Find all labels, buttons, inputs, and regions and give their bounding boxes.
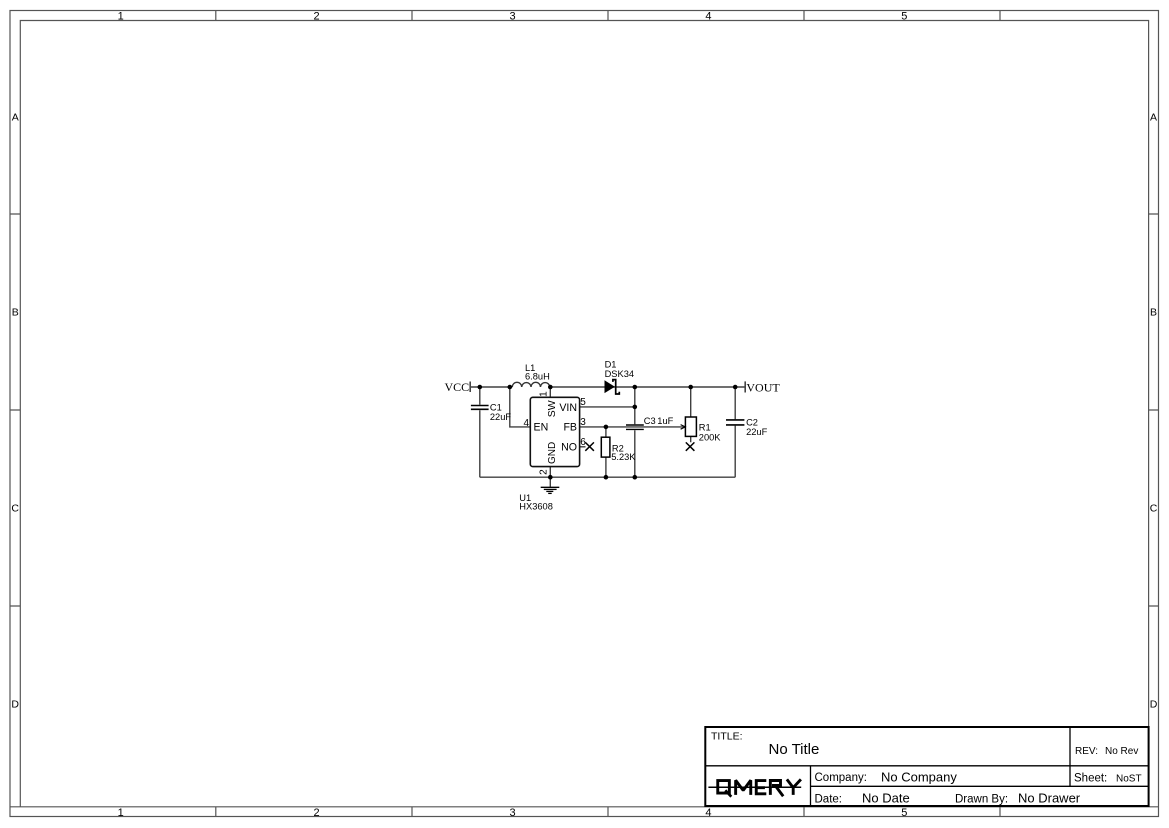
- svg-text:5: 5: [901, 11, 907, 23]
- svg-text:C: C: [1150, 503, 1158, 515]
- svg-text:5.23K: 5.23K: [611, 452, 636, 462]
- svg-text:C3: C3: [644, 416, 656, 426]
- svg-text:3: 3: [509, 807, 515, 819]
- svg-text:DSK34: DSK34: [605, 369, 634, 379]
- svg-text:B: B: [12, 307, 19, 319]
- svg-text:No Company: No Company: [881, 770, 957, 785]
- svg-text:5: 5: [580, 397, 586, 408]
- svg-text:1: 1: [539, 391, 550, 397]
- svg-text:SW: SW: [546, 400, 558, 417]
- svg-text:VIN: VIN: [559, 402, 577, 414]
- svg-text:3: 3: [580, 417, 586, 428]
- svg-text:Sheet:: Sheet:: [1074, 773, 1107, 785]
- svg-text:6: 6: [580, 437, 586, 448]
- svg-text:3: 3: [509, 11, 515, 23]
- svg-text:4: 4: [705, 11, 711, 23]
- svg-text:C: C: [11, 503, 19, 515]
- svg-text:VOUT: VOUT: [746, 380, 780, 394]
- svg-text:REV:: REV:: [1075, 746, 1098, 757]
- svg-text:2: 2: [314, 11, 320, 23]
- svg-text:No Title: No Title: [769, 741, 820, 758]
- svg-text:22uF: 22uF: [746, 427, 768, 437]
- svg-text:R1: R1: [699, 422, 711, 432]
- svg-text:No Rev: No Rev: [1105, 746, 1138, 757]
- svg-text:NoST: NoST: [1116, 774, 1142, 785]
- svg-text:FB: FB: [563, 422, 577, 434]
- svg-text:B: B: [1150, 307, 1157, 319]
- svg-text:Drawn By:: Drawn By:: [955, 794, 1008, 806]
- svg-text:1: 1: [118, 807, 124, 819]
- svg-text:D: D: [1150, 699, 1158, 711]
- svg-text:HX3608: HX3608: [519, 501, 553, 511]
- svg-text:No Date: No Date: [862, 791, 910, 806]
- svg-text:4: 4: [523, 418, 529, 429]
- svg-text:22uF: 22uF: [490, 412, 512, 422]
- svg-text:EN: EN: [534, 422, 549, 434]
- svg-text:6.8uH: 6.8uH: [525, 372, 550, 382]
- svg-text:5: 5: [901, 807, 907, 819]
- svg-text:200K: 200K: [699, 432, 722, 442]
- svg-text:D1: D1: [605, 359, 617, 369]
- svg-text:A: A: [1150, 112, 1157, 124]
- svg-text:2: 2: [539, 469, 550, 475]
- svg-text:Company:: Company:: [815, 772, 867, 784]
- svg-text:No Drawer: No Drawer: [1018, 791, 1081, 806]
- svg-text:A: A: [12, 112, 19, 124]
- svg-text:4: 4: [705, 807, 711, 819]
- svg-text:VCC: VCC: [445, 380, 470, 394]
- svg-text:1: 1: [118, 11, 124, 23]
- svg-text:TITLE:: TITLE:: [711, 730, 743, 742]
- svg-text:Date:: Date:: [815, 794, 843, 806]
- svg-text:D: D: [11, 699, 19, 711]
- svg-text:1uF: 1uF: [657, 416, 673, 426]
- svg-text:2: 2: [314, 807, 320, 819]
- svg-text:GND: GND: [547, 442, 558, 464]
- svg-text:NO: NO: [561, 442, 577, 454]
